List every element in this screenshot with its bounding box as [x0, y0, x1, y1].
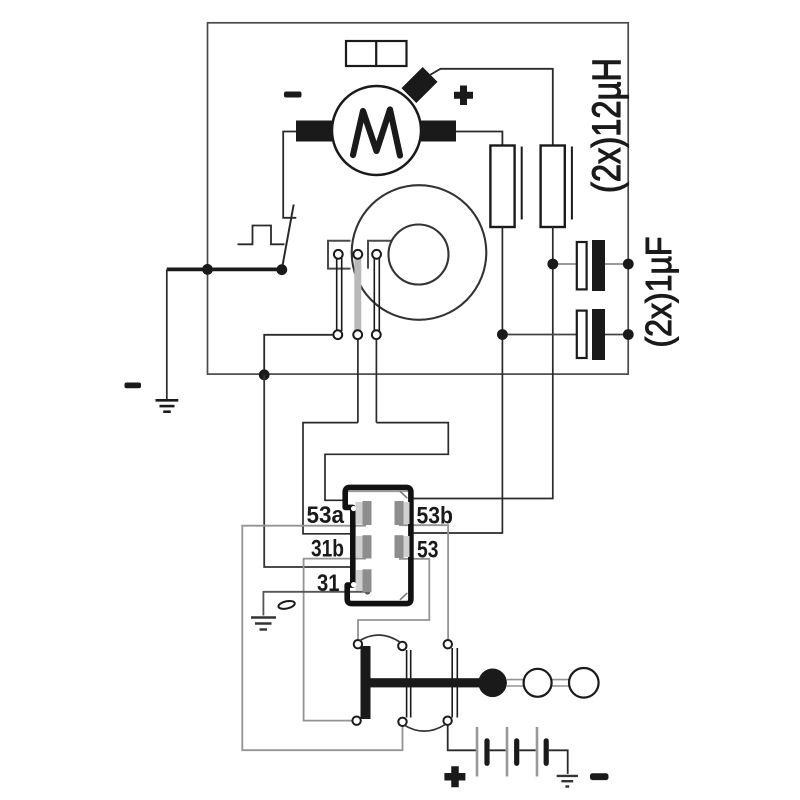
wire 31 bottom to ground 2	[263, 592, 366, 616]
relay pin 53	[395, 535, 404, 558]
relay connector body	[345, 487, 411, 603]
relay pin 53b	[395, 501, 404, 525]
shaft lines	[507, 680, 569, 686]
node C1 right	[623, 259, 634, 270]
inductor L2	[541, 146, 565, 228]
ground 3	[557, 776, 578, 787]
bridge arc bottom	[405, 724, 446, 731]
brush third (diagonal)	[401, 67, 437, 103]
connector X1 (thermo fuse block)	[346, 41, 407, 66]
inductor L1	[490, 146, 514, 228]
node C1 left	[547, 259, 558, 270]
linkage circle 1	[524, 669, 552, 697]
wire 31b bottom (gray)	[304, 559, 366, 721]
brush left (minus)	[296, 121, 332, 142]
bridge arc top	[360, 635, 401, 642]
wire pin3 down	[375, 339, 377, 423]
wire brush3 to L2	[429, 69, 553, 146]
wire pin1 to frame-bottom node	[264, 335, 333, 375]
svg-text:53b: 53b	[417, 503, 454, 530]
wire brush+ to L1	[456, 132, 502, 146]
contact tab left	[328, 241, 351, 269]
contact tab right	[368, 241, 392, 269]
wire pin3 to relay 53a	[325, 423, 448, 501]
wire pin2 down	[357, 339, 359, 423]
switch lever	[363, 678, 492, 687]
svg-text:(2x)1µF: (2x)1µF	[638, 237, 679, 348]
label minus at motor	[284, 92, 302, 98]
wire L1 down to C2 node and relay 53	[412, 227, 502, 533]
relay pin 31b	[363, 535, 372, 558]
node frame bottom	[259, 369, 270, 380]
wire 53 bottom (gray)	[358, 559, 429, 640]
relay pin 53a	[363, 501, 372, 525]
relay pin 31	[363, 569, 372, 592]
label minus at ground 1	[125, 383, 142, 389]
eyelet symbol	[278, 600, 296, 610]
motor M	[332, 86, 421, 175]
node C2 left	[497, 329, 508, 340]
thick ground wire	[167, 267, 282, 271]
stalk switch contact 2	[398, 642, 411, 726]
battery interconnect wires	[490, 749, 536, 751]
svg-text:53a: 53a	[307, 502, 345, 529]
ground 1	[156, 400, 179, 411]
svg-text:(2x)12µH: (2x)12µH	[585, 58, 629, 193]
stalk switch contact 3	[443, 640, 457, 725]
lever knob	[478, 669, 507, 698]
wire L2 down to C1 node and relay 53b	[412, 227, 553, 499]
core line L1	[521, 147, 523, 220]
capacitor C1	[577, 242, 587, 289]
pad dot at 31 pin	[365, 589, 371, 595]
wire brush- down to park switch contact	[283, 132, 296, 218]
capacitor C1 wires	[553, 263, 577, 265]
contact track 2 (gray bar)	[353, 250, 362, 339]
gear plate outer circle	[352, 185, 487, 320]
wire contact3 to battery	[448, 725, 477, 750]
brush right (plus)	[421, 121, 456, 142]
wire to ground 1	[166, 269, 168, 399]
label plus at motor	[454, 86, 473, 106]
capacitor C2	[577, 311, 587, 358]
ground 2	[251, 618, 276, 630]
park switch blade	[282, 205, 294, 270]
capacitor C2 wires	[502, 334, 576, 336]
gear plate inner circle	[389, 225, 449, 285]
linkage circle 2	[569, 668, 599, 698]
core line L2	[571, 147, 573, 220]
svg-text:53: 53	[417, 537, 439, 564]
motor housing frame	[208, 23, 629, 374]
battery cells	[477, 727, 546, 777]
stalk switch contact 1	[352, 640, 370, 725]
label plus at battery	[444, 766, 465, 787]
contact track 1	[333, 250, 342, 339]
wire battery minus to ground 3	[549, 750, 568, 774]
node at switch pivot	[276, 264, 287, 275]
svg-text:31: 31	[317, 570, 340, 597]
wire 53a bottom (gray)	[242, 526, 402, 751]
contact track 3	[372, 250, 381, 339]
label minus at battery	[590, 773, 609, 780]
pulse symbol (intermittent cam)	[238, 226, 285, 245]
wire node down to relay 31	[264, 375, 353, 567]
wire pin2 to relay 31b	[303, 423, 358, 534]
node C2 right	[623, 329, 634, 340]
node at frame left	[202, 264, 213, 275]
svg-text:31b: 31b	[311, 536, 344, 563]
wire 53b bottom (gray)	[399, 525, 448, 640]
